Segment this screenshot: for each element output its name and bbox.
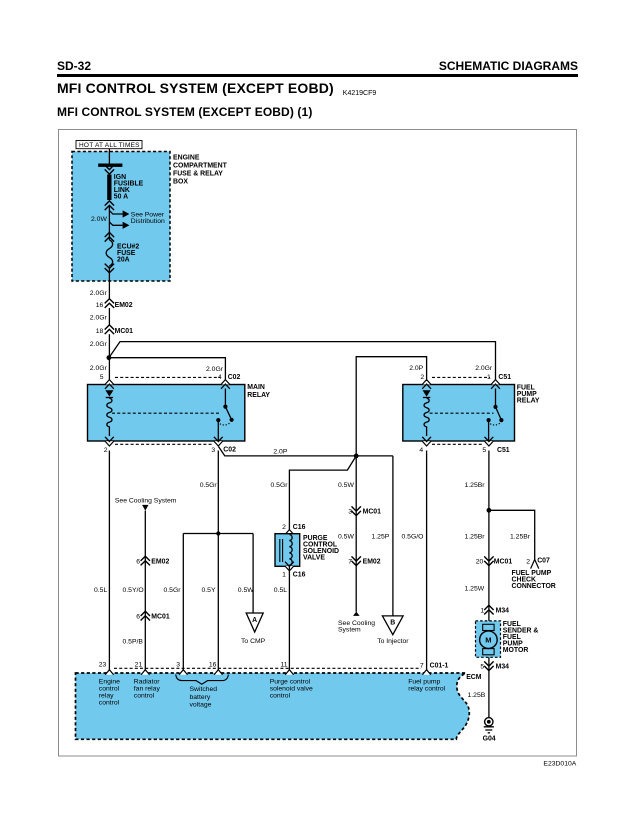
main relay pin 5 chevrons (105, 380, 114, 389)
switch dotted arc (490, 423, 501, 425)
arrow 2 (123, 222, 130, 229)
wire junction up to fuel pump relay pin 2 (356, 357, 426, 456)
ECM fuel pump relay label (408, 679, 446, 693)
svg-text:1.25Br: 1.25Br (465, 534, 486, 541)
connector MC01 pin 20 (484, 556, 493, 565)
svg-text:Radiator: Radiator (134, 679, 160, 686)
svg-text:1: 1 (487, 374, 491, 381)
fuel pump motor M (480, 631, 498, 649)
svg-text:5: 5 (480, 663, 484, 670)
wire out of fuse box (108, 267, 110, 299)
ECM engine control relay label (99, 679, 120, 707)
svg-text:2.0Gr: 2.0Gr (90, 315, 108, 322)
connector MC01 pin 6 (141, 611, 150, 620)
svg-text:Purge control: Purge control (270, 679, 311, 686)
svg-text:2.0Gr: 2.0Gr (90, 365, 108, 372)
arrow 1 (123, 210, 130, 217)
svg-text:ECM: ECM (466, 674, 482, 681)
connector M34 pin 1 (484, 605, 493, 614)
main relay diode (105, 390, 113, 396)
svg-text:ENGINE: ENGINE (173, 154, 200, 161)
wire main relay pin 2 to ECM pin 23 (108, 451, 110, 671)
main relay pin 4 chevrons (221, 380, 230, 389)
fuel pump relay box (403, 385, 515, 442)
chevrons below fuse (105, 264, 114, 273)
svg-text:Switched: Switched (190, 686, 218, 693)
svg-text:2.0Gr: 2.0Gr (90, 341, 108, 348)
svg-text:1: 1 (480, 608, 484, 615)
svg-text:Engine: Engine (99, 679, 120, 686)
svg-text:MC01: MC01 (494, 558, 513, 565)
svg-text:2: 2 (282, 524, 286, 531)
svg-text:2.0P: 2.0P (409, 365, 423, 372)
svg-text:7: 7 (420, 663, 424, 670)
switch arm (225, 407, 231, 420)
purge valve connector C16 pin 2 (285, 530, 294, 539)
svg-text:C07: C07 (537, 557, 550, 564)
connector EM02 pin 16 (105, 299, 114, 308)
engine compartment fuse and relay box (72, 152, 170, 282)
svg-text:4: 4 (218, 374, 222, 381)
wire main relay pin 3 down to ECM pin 16 (217, 451, 219, 671)
svg-text:50 A: 50 A (114, 194, 128, 201)
bus bar (98, 164, 122, 167)
svg-text:EM02: EM02 (151, 558, 169, 565)
wire to injector branch (392, 456, 394, 616)
svg-text:0.5L: 0.5L (94, 587, 107, 594)
fuse box label (173, 154, 228, 185)
wire branch to check connector (489, 510, 535, 559)
svg-text:Distribution: Distribution (131, 218, 165, 225)
svg-text:1.25Br: 1.25Br (510, 534, 531, 541)
svg-text:5: 5 (100, 374, 104, 381)
main relay switch wire from pin 4 (224, 389, 226, 407)
connector EM02 pin 7 (352, 556, 361, 565)
diagram frame (59, 130, 577, 757)
svg-text:C51: C51 (497, 447, 510, 454)
fusible link IGN 50A (107, 175, 111, 201)
ECM pin 16 (214, 670, 222, 675)
svg-text:control: control (99, 686, 120, 693)
ECM pin row dashes (114, 667, 421, 669)
wire into bus bar (108, 149, 110, 164)
svg-text:HOT AT ALL TIMES: HOT AT ALL TIMES (79, 142, 140, 149)
svg-text:0.5W: 0.5W (338, 534, 354, 541)
svg-text:2: 2 (526, 558, 530, 565)
see power distribution label (131, 211, 165, 224)
main relay coil (107, 398, 112, 436)
switch contact wire to pin 3 (217, 420, 219, 441)
main relay actuation dashed link (112, 412, 220, 414)
chevrons below bus bar (105, 165, 114, 174)
wire to ECM pin 3 (182, 534, 184, 671)
purge valve label (303, 535, 339, 562)
svg-text:2.0W: 2.0W (91, 216, 107, 223)
switch pivot dot (223, 405, 227, 409)
svg-text:control: control (99, 700, 120, 707)
wire horizontal branch at 0.5Gr junction (183, 533, 253, 535)
HOT AT ALL TIMES label (76, 141, 142, 150)
svg-text:M: M (485, 636, 491, 645)
svg-text:16: 16 (96, 302, 104, 309)
svg-text:System: System (338, 627, 361, 634)
wire down to main relay pin 5 (108, 334, 110, 381)
wire junction to fuel pump relay pin 1 (109, 342, 496, 381)
svg-text:B: B (390, 620, 395, 627)
svg-text:M34: M34 (496, 608, 510, 615)
fuel pump motor brush block bottom (483, 649, 494, 655)
connector EM02 pin 6 (141, 556, 150, 565)
fuel pump check connector label (512, 570, 556, 590)
branch to see power distribution 1 (109, 211, 122, 214)
svg-text:0.5Gr: 0.5Gr (271, 482, 289, 489)
svg-text:C16: C16 (293, 524, 306, 531)
svg-text:1.25P: 1.25P (372, 534, 390, 541)
wire junction down cooling system sense (355, 456, 357, 612)
ECM radiator fan relay label (134, 679, 161, 700)
fusible link label (114, 174, 144, 201)
svg-text:2.0P: 2.0P (273, 448, 287, 455)
chevrons above fuse (105, 232, 114, 241)
wire fuel pump relay pin 4 to ECM pin 7 (426, 451, 428, 671)
ECM pin 11 (285, 670, 293, 675)
fuel pump relay diode (423, 390, 431, 396)
ECU#2 fuse 20A (106, 240, 112, 266)
connector row dashes C02 top (115, 376, 220, 378)
ECM pin 7 (422, 670, 430, 675)
svg-text:2: 2 (420, 374, 424, 381)
svg-text:solenoid valve: solenoid valve (270, 686, 313, 693)
see cooling system label (338, 620, 375, 634)
svg-text:20: 20 (476, 558, 484, 565)
branch to see power distribution 2 (109, 222, 122, 225)
svg-text:0.5W: 0.5W (338, 482, 354, 489)
chevrons below fusible link (105, 201, 114, 210)
svg-text:6: 6 (136, 614, 140, 621)
fuel pump relay actuation dashed link (430, 412, 494, 414)
svg-text:C02: C02 (223, 447, 236, 454)
purge valve plates (280, 539, 283, 562)
wire fuel pump relay pin 5 down (488, 451, 490, 718)
switch contact dot (487, 418, 491, 422)
ECM pin 21 (141, 670, 149, 675)
see cooling system up arrow (353, 612, 360, 616)
main relay label (247, 384, 270, 399)
svg-text:control: control (270, 693, 291, 700)
to injector triangle B (382, 616, 403, 635)
svg-text:EM02: EM02 (363, 558, 381, 565)
svg-text:1: 1 (282, 571, 286, 578)
svg-text:C02: C02 (228, 374, 241, 381)
svg-text:COMPARTMENT: COMPARTMENT (173, 162, 228, 169)
svg-text:3: 3 (211, 447, 215, 454)
svg-text:2.0Gr: 2.0Gr (475, 365, 493, 372)
svg-text:G04: G04 (483, 735, 496, 742)
fuel pump motor brush block top (483, 624, 494, 630)
connector row dashes C51 top (432, 376, 490, 378)
svg-text:1.25Br: 1.25Br (465, 482, 486, 489)
svg-text:21: 21 (135, 662, 143, 669)
svg-text:To Injector: To Injector (377, 638, 409, 645)
svg-text:MC01: MC01 (115, 328, 134, 335)
svg-text:A: A (252, 617, 257, 624)
switch contact wire to pin 5 (488, 420, 490, 441)
svg-text:1.25B: 1.25B (468, 692, 486, 699)
ECM switched battery label (190, 686, 218, 709)
fuse label (117, 243, 139, 263)
ECM purge control label (270, 679, 313, 700)
fuel pump relay coil (424, 398, 429, 436)
svg-text:BOX: BOX (173, 178, 188, 185)
main relay box (88, 385, 245, 442)
ECM box (76, 673, 470, 739)
svg-text:2: 2 (104, 447, 108, 454)
wire to CMP triangle (252, 534, 254, 614)
switch pivot dot (493, 405, 497, 409)
svg-text:0.5G/O: 0.5G/O (402, 534, 424, 541)
fuel pump relay pin 1 chevrons (491, 380, 500, 389)
svg-text:RELAY: RELAY (247, 392, 270, 399)
svg-text:C01-1: C01-1 (430, 663, 449, 670)
wire purge valve to ECM pin 11 (288, 566, 290, 670)
wire junction to main relay pin 4 (109, 358, 225, 381)
svg-text:0.5L: 0.5L (274, 587, 287, 594)
svg-text:0.5W: 0.5W (238, 587, 254, 594)
svg-text:MC01: MC01 (151, 614, 170, 621)
svg-text:VALVE: VALVE (303, 554, 325, 561)
svg-text:To CMP: To CMP (241, 638, 266, 645)
fuel pump relay pin 5 chevrons (485, 437, 494, 446)
wire (108, 308, 110, 325)
ECM brace pins 3 and 16 (176, 674, 229, 684)
svg-text:0.5P/B: 0.5P/B (123, 639, 144, 646)
svg-text:control: control (134, 693, 155, 700)
svg-text:relay control: relay control (408, 686, 446, 693)
svg-text:0.5Gr: 0.5Gr (164, 587, 182, 594)
svg-text:3: 3 (348, 508, 352, 515)
junction node A on 2.0P line (354, 454, 359, 459)
connector M34 pin 5 (484, 661, 493, 670)
wire junction to purge control solenoid valve (289, 456, 356, 530)
svg-text:M34: M34 (496, 663, 510, 670)
svg-text:MOTOR: MOTOR (503, 647, 529, 654)
fuel pump relay label (517, 384, 540, 404)
wire cooling sense to ECM pin 21 (144, 511, 146, 670)
svg-text:C16: C16 (293, 571, 306, 578)
junction (107, 355, 112, 360)
svg-text:MC01: MC01 (363, 508, 382, 515)
junction on 0.5Gr wire (216, 531, 220, 535)
svg-text:0.5Y/O: 0.5Y/O (123, 587, 144, 594)
svg-text:23: 23 (99, 662, 107, 669)
connector row dashes C51 bottom (432, 443, 484, 445)
switch arm (496, 407, 502, 420)
junction on fuel pump feed (487, 508, 492, 513)
fuel pump relay pin 4 chevrons (422, 437, 431, 446)
svg-text:E23D010A: E23D010A (543, 760, 576, 767)
svg-text:See Cooling System: See Cooling System (115, 498, 177, 505)
fuel sender label (503, 621, 539, 654)
svg-text:EM02: EM02 (115, 302, 133, 309)
svg-text:2.0Gr: 2.0Gr (206, 366, 224, 373)
switch contact dot (216, 418, 220, 422)
svg-text:Fuel pump: Fuel pump (408, 679, 440, 686)
fuel pump relay switch wire from pin 1 (495, 389, 497, 407)
svg-text:1.25W: 1.25W (465, 586, 485, 593)
svg-text:C51: C51 (498, 374, 511, 381)
svg-text:5: 5 (482, 447, 486, 454)
main relay pin 3 chevrons (214, 437, 223, 446)
switch dotted arc (220, 423, 231, 425)
purge control solenoid valve box (275, 534, 300, 567)
svg-text:FUSE & RELAY: FUSE & RELAY (173, 170, 223, 177)
svg-text:18: 18 (96, 328, 104, 335)
svg-text:7: 7 (348, 558, 352, 565)
fuel pump relay pin 2 chevrons (422, 380, 431, 389)
svg-text:6: 6 (136, 558, 140, 565)
svg-text:0.5Y: 0.5Y (202, 587, 216, 594)
svg-text:16: 16 (209, 662, 217, 669)
svg-text:4: 4 (419, 447, 423, 454)
svg-text:relay: relay (99, 693, 114, 700)
ECM pin 23 (105, 670, 113, 675)
see cooling system down arrow (142, 505, 148, 511)
connector row dashes C02 bottom (115, 443, 213, 445)
main relay pin 2 chevrons (105, 437, 114, 446)
svg-text:fan relay: fan relay (134, 686, 161, 693)
svg-text:battery: battery (190, 694, 211, 701)
svg-text:MAIN: MAIN (247, 384, 265, 391)
purge valve connector C16 pin 1 (285, 562, 294, 571)
wire branch pin 3 to 2.0P line (219, 447, 393, 456)
svg-text:11: 11 (281, 662, 288, 669)
svg-text:3: 3 (176, 662, 180, 669)
svg-text:20A: 20A (117, 257, 130, 264)
svg-text:2.0Gr: 2.0Gr (90, 290, 108, 297)
wire from link to fuse (108, 206, 110, 240)
connector MC01 pin 3 (352, 506, 361, 515)
svg-text:voltage: voltage (190, 702, 212, 709)
switch arm end dot (499, 418, 503, 422)
ground G04 symbol (484, 718, 494, 733)
svg-text:RELAY: RELAY (517, 398, 540, 405)
to CMP triangle A (246, 613, 263, 632)
svg-text:CONNECTOR: CONNECTOR (512, 583, 556, 590)
ECM pin 3 (179, 670, 187, 675)
connector MC01 pin 18 (105, 325, 114, 334)
purge valve coil (289, 535, 292, 565)
fuel sender and pump box (476, 621, 501, 657)
switch arm end dot (230, 418, 234, 422)
connector C07 pin 2 fuel pump check (531, 560, 539, 569)
svg-text:0.5Gr: 0.5Gr (200, 482, 218, 489)
